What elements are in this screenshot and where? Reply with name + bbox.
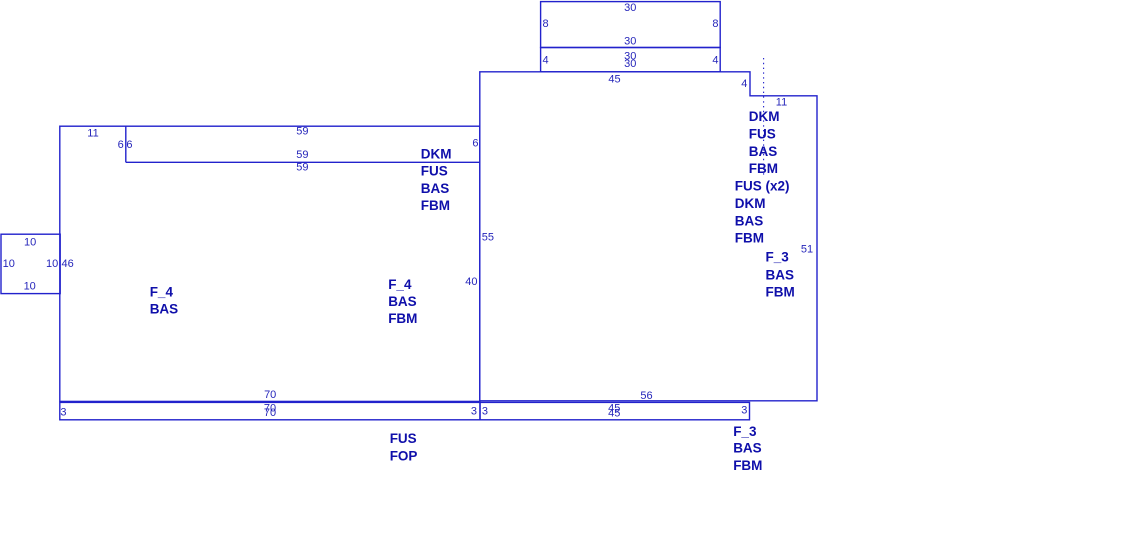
label F_3 BAS FBM mid right [766, 250, 795, 300]
svg-text:10: 10 [24, 237, 36, 249]
svg-text:55: 55 [482, 232, 494, 244]
svg-text:11: 11 [87, 128, 98, 140]
dim 3 left of right porch [482, 406, 488, 418]
dim 11 upper-right of F_3 [776, 97, 787, 109]
F_3 main outline polygon [480, 72, 817, 401]
svg-text:DKM: DKM [749, 109, 780, 124]
DKM strip bottom line [126, 161, 480, 163]
svg-text:46: 46 [61, 258, 73, 270]
svg-text:FBM: FBM [421, 198, 450, 213]
dim 46 left of F_4 [61, 258, 73, 270]
svg-text:FUS: FUS [390, 431, 417, 446]
svg-text:FUS: FUS [421, 164, 448, 179]
label FUS FOP below left porch [390, 431, 418, 464]
svg-text:BAS: BAS [735, 213, 764, 228]
svg-text:70: 70 [264, 389, 276, 401]
svg-text:8: 8 [712, 18, 718, 30]
dim 3 left of left porch [60, 407, 66, 419]
dim 59 top of strip [296, 126, 308, 138]
svg-text:BAS: BAS [749, 144, 778, 159]
svg-text:BAS: BAS [150, 302, 179, 317]
dim 30 bottom of 30x8 [624, 36, 636, 48]
dotted area divider line [763, 58, 765, 175]
svg-text:11: 11 [776, 97, 787, 109]
dim 11 top-left of F_4 [87, 128, 98, 140]
label F_4 BAS FBM center [388, 277, 417, 326]
svg-text:56: 56 [640, 390, 652, 402]
svg-text:59: 59 [296, 126, 308, 138]
dim 6 left of strip edge [118, 139, 124, 151]
dim 6 right of strip edge [126, 139, 132, 151]
dim 45 top of right porch [608, 403, 620, 415]
upper addition rect 30x8 [541, 2, 721, 48]
dim 4 right of 30x4 [712, 55, 718, 67]
svg-text:51: 51 [801, 244, 813, 256]
dim 30 top of 30x4 [624, 50, 636, 62]
label block FUS (x2) DKM BAS FBM right [735, 179, 790, 246]
svg-text:F_3: F_3 [733, 424, 757, 439]
svg-text:BAS: BAS [733, 441, 762, 456]
svg-text:FUS: FUS [749, 127, 776, 142]
svg-text:30: 30 [624, 36, 636, 48]
svg-text:3: 3 [471, 406, 477, 418]
dim 51 right of F_3 [801, 244, 813, 256]
svg-text:6: 6 [472, 138, 478, 150]
svg-text:4: 4 [741, 78, 747, 90]
svg-text:6: 6 [126, 139, 132, 151]
svg-text:FBM: FBM [735, 231, 764, 246]
svg-text:BAS: BAS [388, 294, 417, 309]
svg-text:59: 59 [296, 149, 308, 161]
dim 56 bottom of F_3 [640, 390, 652, 402]
svg-text:FBM: FBM [749, 161, 778, 176]
dim 70 top of left porch [264, 402, 276, 414]
svg-text:3: 3 [482, 406, 488, 418]
svg-text:4: 4 [712, 55, 718, 67]
svg-text:FBM: FBM [388, 311, 417, 326]
svg-text:70: 70 [264, 407, 276, 419]
svg-text:30: 30 [624, 58, 636, 70]
svg-text:45: 45 [608, 74, 620, 86]
right porch strip F_3 [480, 402, 750, 419]
svg-text:F_3: F_3 [766, 250, 790, 265]
svg-text:FUS (x2): FUS (x2) [735, 179, 790, 194]
dim 10 right of box [46, 258, 58, 270]
dim 3 right of left porch [471, 406, 477, 418]
dim 45 bottom of right porch [608, 408, 620, 420]
svg-text:10: 10 [24, 281, 36, 293]
dim 70 bottom of left porch [264, 407, 276, 419]
dim 30 top of 30x8 [624, 2, 636, 14]
dim 55 left of F_3 [482, 232, 494, 244]
left 10x10 box [1, 234, 60, 293]
svg-text:40: 40 [465, 276, 477, 288]
dim 8 left of 30x8 [543, 18, 549, 30]
svg-text:8: 8 [543, 18, 549, 30]
dim 10 left of box [3, 258, 15, 270]
dim 3 right of right porch [741, 404, 747, 416]
svg-text:10: 10 [46, 258, 58, 270]
lower addition rect 30x4 [541, 48, 721, 72]
svg-text:FOP: FOP [390, 449, 418, 464]
svg-text:FBM: FBM [766, 285, 795, 300]
dim 70 bottom of F_4 [264, 389, 276, 401]
svg-text:45: 45 [608, 408, 620, 420]
dim 6 right end of strip [472, 138, 478, 150]
svg-text:4: 4 [543, 55, 549, 67]
svg-text:6: 6 [118, 139, 124, 151]
svg-text:FBM: FBM [733, 458, 762, 473]
dim 59 below strip bottom [296, 162, 308, 174]
svg-text:3: 3 [60, 407, 66, 419]
svg-text:DKM: DKM [421, 146, 452, 161]
DKM strip left line [125, 126, 127, 162]
dim 59 above strip bottom [296, 149, 308, 161]
label DKM FUS BAS FBM in strip [421, 146, 452, 213]
svg-text:F_4: F_4 [150, 285, 174, 300]
dim 10 top of box [24, 237, 36, 249]
dim 30 bottom of 30x4 [624, 58, 636, 70]
dim 4 step of F_3 [741, 78, 747, 90]
dim 45 top of F_3 [608, 74, 620, 86]
svg-text:F_4: F_4 [388, 277, 412, 292]
svg-text:59: 59 [296, 162, 308, 174]
dim 4 left of 30x4 [543, 55, 549, 67]
label F_4 BAS left [150, 285, 179, 317]
svg-text:BAS: BAS [766, 267, 795, 282]
svg-text:10: 10 [3, 258, 15, 270]
svg-text:30: 30 [624, 2, 636, 14]
dim 10 bottom of box [24, 281, 36, 293]
left porch strip FUS FOP [60, 402, 480, 419]
svg-text:BAS: BAS [421, 181, 450, 196]
dim 8 right of 30x8 [712, 18, 718, 30]
F_4 main rectangle [60, 126, 480, 401]
dim 40 right of F_4 [465, 276, 477, 288]
label F_3 BAS FBM below right porch [733, 424, 762, 473]
svg-text:DKM: DKM [735, 196, 766, 211]
svg-text:3: 3 [741, 404, 747, 416]
label block DKM FUS BAS FBM upper right [749, 109, 780, 176]
